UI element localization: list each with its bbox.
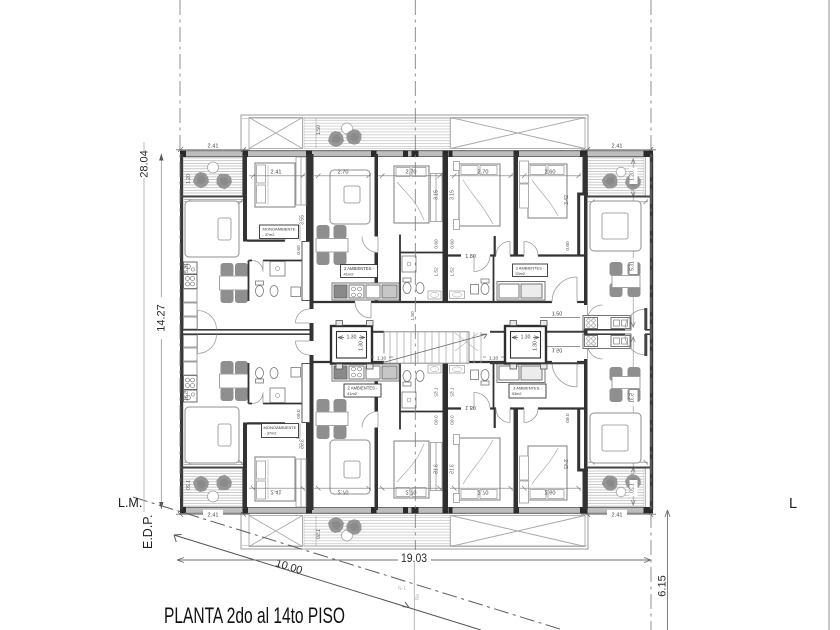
2amb bath walls — [400, 235, 443, 302]
studio bed — [255, 163, 295, 207]
svg-text:1.30: 1.30 — [521, 335, 531, 341]
balcony right plant 2 — [624, 173, 641, 190]
label 2 ambientes lower — [344, 384, 381, 397]
terrace skylight left (X box) — [249, 118, 303, 149]
balcony right left wall — [584, 155, 588, 197]
wall piers on top wall — [180, 151, 653, 158]
dim 1.20 balcony right — [630, 168, 638, 184]
dim line 14.27 — [160, 154, 162, 510]
svg-text:3.42: 3.42 — [564, 195, 570, 205]
svg-text:41m2: 41m2 — [347, 391, 358, 396]
right apt dim line 1.20/5.31 — [632, 158, 634, 328]
elevator left door marks — [336, 321, 373, 370]
corridor walls — [371, 332, 584, 363]
dim line 2.41 right balcony — [581, 147, 656, 152]
svg-text:PLANTA 2do al 14to PISO: PLANTA 2do al 14to PISO — [164, 603, 345, 628]
balcony right inner rail — [645, 157, 647, 196]
svg-text:0.60: 0.60 — [434, 239, 440, 249]
svg-text:1.10: 1.10 — [489, 356, 499, 362]
2amb bedroom door arc — [362, 237, 378, 253]
svg-text:2.41: 2.41 — [208, 144, 219, 150]
2amb bath bidet — [416, 283, 424, 294]
right apt kitchen counter — [583, 316, 631, 331]
stair direction line — [385, 334, 487, 362]
studio shaft — [302, 242, 310, 301]
svg-text:1.30: 1.30 — [533, 341, 539, 351]
dim line 2.41 left balcony — [176, 147, 250, 152]
terrace plant 1 — [328, 131, 344, 147]
2amb sofa — [330, 170, 370, 224]
wall living/bedroom studio — [243, 196, 247, 242]
balcony left window wall — [180, 196, 247, 198]
dim 2.70 2amb bedroom — [378, 174, 442, 179]
svg-text:53m2: 53m2 — [516, 272, 526, 276]
studio wardrobe — [296, 157, 306, 205]
right exterior wall — [650, 154, 653, 332]
studio bath bidet — [270, 286, 278, 297]
svg-text:L.M.: L.M. — [118, 496, 142, 510]
svg-text:1.20: 1.20 — [186, 174, 192, 184]
studio sofa — [185, 201, 239, 257]
municipal line diagonal (L.M.) — [133, 497, 563, 630]
svg-text:2.41: 2.41 — [208, 512, 219, 518]
right apt dining table — [612, 276, 640, 288]
3amb bed 2 — [528, 164, 567, 218]
svg-text:E.D.P.: E.D.P. — [141, 514, 155, 549]
2amb bath toilet — [403, 278, 411, 294]
roof terrace outline — [241, 115, 588, 151]
2amb dining table — [316, 239, 348, 253]
label 2 ambientes upper — [341, 265, 378, 278]
dim line 6.15 — [665, 510, 670, 630]
bedroom lower wall 3amb — [448, 254, 587, 256]
svg-text:1.50: 1.50 — [316, 125, 322, 135]
svg-text:3.15: 3.15 — [450, 190, 456, 200]
balcony right deck hatch — [588, 158, 645, 197]
studio entry door arc — [296, 309, 310, 323]
right apt left wall — [584, 196, 588, 305]
label 3 ambientes upper — [513, 264, 548, 277]
3amb bath sink — [471, 285, 479, 295]
studio bath sink — [291, 287, 301, 297]
studio bathroom walls — [249, 261, 307, 302]
dim 1.30 elevator left — [338, 336, 365, 340]
svg-text:2.41: 2.41 — [271, 170, 282, 176]
bed2 door arc — [524, 242, 538, 256]
terrace skylight right (X box) — [451, 118, 586, 149]
balcony left: deck hatch — [183, 158, 242, 197]
sheet right border — [828, 0, 830, 630]
wall right of studio bedroom — [306, 154, 311, 242]
studio hall door arc — [198, 311, 217, 330]
3amb bath toilet — [481, 279, 489, 295]
left exterior wall — [180, 154, 183, 332]
3amb bath door arc — [474, 256, 490, 272]
dim 2.70 3amb bed1 — [450, 174, 513, 179]
3amb entry door — [552, 277, 577, 302]
axis center line — [414, 0, 416, 560]
svg-text:3 AMBIENTES -: 3 AMBIENTES - — [513, 386, 542, 391]
2amb entry door — [355, 302, 371, 318]
svg-text:1.20: 1.20 — [629, 171, 635, 181]
terrace deck hatch — [304, 118, 450, 149]
svg-text:0.60: 0.60 — [296, 245, 302, 255]
2amb kitchen counter — [332, 283, 399, 300]
studio fridge cabinets — [184, 303, 198, 329]
svg-text:3 AMBIENTES -: 3 AMBIENTES - — [516, 266, 545, 271]
studio mid party wall (mirror line) — [183, 329, 310, 331]
svg-text:Nv: Nv — [415, 593, 421, 600]
svg-text:1.50: 1.50 — [552, 312, 563, 318]
right apt duct wall — [644, 308, 647, 330]
svg-text:0.60: 0.60 — [450, 239, 456, 249]
dim 1.10 right — [483, 356, 504, 358]
hall wall — [313, 301, 584, 303]
svg-text:1.30: 1.30 — [347, 335, 357, 341]
svg-text:2.70: 2.70 — [338, 170, 349, 176]
mirrored lower wing — [176, 332, 656, 549]
svg-text:1.10: 1.10 — [377, 356, 387, 362]
svg-text:2.41: 2.41 — [612, 512, 623, 518]
studio party wall lower + entry door — [310, 302, 314, 309]
2amb bath mat — [428, 291, 441, 299]
terrace planter table — [342, 123, 353, 134]
svg-text:2.60: 2.60 — [545, 170, 556, 176]
dim 2.60 3amb bed2 — [520, 174, 581, 179]
2amb bath shower — [402, 256, 416, 272]
balcony left table — [208, 162, 219, 173]
wall bed1/bed2 — [514, 154, 519, 256]
balcony left divider wall — [243, 155, 248, 197]
svg-text:19.03: 19.03 — [401, 553, 427, 565]
axis right property line — [650, 0, 652, 630]
3amb bath shower tray — [450, 291, 465, 299]
dim 1.50 right corridor — [540, 317, 580, 319]
balcony left plant 2 — [214, 171, 235, 192]
dimension diagonal 10.00 — [174, 535, 481, 630]
balcony right table — [616, 167, 626, 177]
dim 2.41 bottom-right balcony — [607, 510, 627, 523]
dim 2.41 studio bedroom — [249, 174, 305, 179]
right apt sofa — [590, 201, 641, 251]
3amb kitchen counter — [497, 282, 545, 301]
studio dining table — [220, 276, 249, 290]
bed1 door arc — [496, 242, 510, 256]
dim line 19.03 — [177, 558, 651, 563]
right apt dining chairs — [610, 262, 623, 276]
right apt party wall (mirror line) — [584, 329, 625, 331]
svg-text:N-1: N-1 — [398, 586, 406, 592]
svg-text:6.15: 6.15 — [657, 575, 669, 596]
studio bath shower — [270, 262, 285, 277]
stair landing cross — [455, 333, 478, 351]
label monoambiente upper — [260, 225, 299, 239]
svg-text:- 37m2: - 37m2 — [263, 233, 275, 237]
studio bath door arc — [252, 261, 263, 272]
studio bath toilet — [256, 281, 264, 297]
right apt inner door arc — [625, 309, 645, 329]
svg-text:MONOAMBIENTE: MONOAMBIENTE — [264, 425, 297, 430]
2amb living/bedroom wall — [375, 154, 379, 237]
svg-text:28.04: 28.04 — [139, 150, 151, 178]
svg-text:1.30: 1.30 — [359, 341, 365, 351]
svg-text:14.27: 14.27 — [156, 304, 168, 332]
svg-text:L: L — [789, 496, 797, 512]
label 3 ambientes lower — [509, 384, 546, 398]
svg-text:2.41: 2.41 — [612, 144, 623, 150]
top exterior wall — [180, 152, 653, 156]
dim 1.80 hall — [461, 253, 480, 260]
svg-text:2.70: 2.70 — [406, 170, 417, 176]
3amb bed 1 — [459, 164, 500, 226]
label monoambiente lower — [262, 424, 299, 438]
dim 1.10 left — [371, 356, 393, 358]
elevator shaft left — [331, 326, 372, 364]
studio/hall party wall — [310, 154, 314, 302]
2amb bed — [394, 166, 429, 223]
svg-text:3.15: 3.15 — [434, 190, 440, 200]
svg-text:MONOAMBIENTE: MONOAMBIENTE — [263, 227, 296, 232]
studio kitchen counters — [184, 262, 198, 302]
studio bedroom lower wall — [247, 240, 285, 242]
party wall 2amb/3amb — [443, 154, 449, 302]
svg-text:41m2: 41m2 — [344, 271, 355, 276]
3amb bath right wall — [493, 256, 495, 302]
svg-text:1.52: 1.52 — [450, 267, 456, 277]
svg-text:2.70: 2.70 — [478, 170, 489, 176]
dim 2.70 left living window — [184, 200, 243, 205]
svg-text:5.31: 5.31 — [184, 263, 190, 273]
right apt entry door — [588, 305, 603, 320]
2amb closet — [431, 174, 443, 222]
terrace plant 2 — [343, 126, 366, 149]
dim 2.70 2amb living — [314, 174, 371, 179]
axis left property line — [179, 0, 181, 497]
staircase — [384, 332, 469, 363]
bed1 closet nook wall — [494, 236, 496, 256]
svg-text:1.52: 1.52 — [434, 267, 440, 277]
dim 2.70 right living window — [588, 200, 648, 205]
svg-text:53m2: 53m2 — [512, 392, 522, 396]
dim 1.30 elevator right — [512, 336, 539, 340]
bed2 right wall (jogged) — [579, 154, 584, 256]
elevator shaft right — [505, 326, 546, 364]
dim 2.41 bottom-left balcony — [203, 510, 223, 523]
elevator right door marks — [510, 321, 547, 370]
studio bedroom door arc — [285, 226, 300, 241]
3amb bed2 closet — [520, 161, 529, 208]
balcony left plant 1 — [193, 172, 209, 188]
dim line 28.04 — [143, 142, 145, 152]
svg-text:3.55: 3.55 — [300, 215, 306, 225]
balcony right window wall — [584, 196, 650, 198]
svg-text:0.60: 0.60 — [565, 241, 571, 251]
dim 5.31 right — [630, 258, 638, 274]
svg-text:5.31: 5.31 — [629, 261, 635, 271]
2amb dining chairs — [317, 225, 330, 239]
svg-text:- 37m2: - 37m2 — [265, 431, 277, 435]
3amb bed1 nightstands — [454, 162, 460, 230]
studio dining chairs — [221, 263, 234, 277]
balcony right plant 1 — [600, 171, 621, 192]
